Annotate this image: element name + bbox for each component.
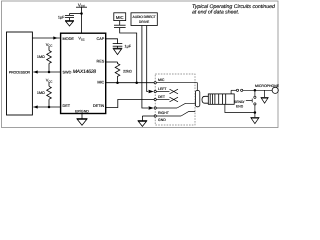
headphone plug body with rings bbox=[208, 94, 234, 104]
wire plug sleeve to button node bbox=[225, 104, 255, 112]
svg-text:DET: DET bbox=[158, 95, 166, 99]
node R2/DET junction bbox=[48, 106, 51, 109]
headphone plug tip bbox=[202, 96, 209, 103]
wire processor to MODE pin bbox=[32, 36, 60, 39]
wire Vcc node to C1 bbox=[70, 13, 82, 15]
wire DETIN pin to jack DET bbox=[106, 100, 154, 108]
wire ADD left output to jack LEFT bbox=[147, 26, 149, 92]
node R1/SWD junction bbox=[48, 71, 51, 74]
svg-text:DET: DET bbox=[63, 104, 71, 108]
svg-text:MIC: MIC bbox=[97, 80, 104, 84]
AUDIO DIRECT DRIVE box bbox=[131, 13, 157, 26]
MIC source box bbox=[114, 13, 126, 21]
wire mic line bbox=[243, 89, 272, 91]
ground for headset return bbox=[250, 113, 259, 124]
microphone element symbol under MIC box bbox=[114, 21, 126, 28]
node R3/MIC junction bbox=[116, 81, 119, 84]
svg-text:MIC: MIC bbox=[116, 15, 124, 20]
svg-text:1μF: 1μF bbox=[58, 16, 65, 20]
svg-text:MAX14628: MAX14628 bbox=[73, 69, 97, 75]
svg-text:EP/GND: EP/GND bbox=[75, 110, 89, 114]
headphone jack connector box (dashed) bbox=[155, 74, 195, 125]
svg-text:SWD: SWD bbox=[63, 71, 72, 75]
resistor R3 22kohm bbox=[115, 62, 132, 83]
Vcc supply symbol bbox=[76, 2, 87, 8]
node mic line junction bbox=[254, 89, 257, 92]
svg-text:MODE: MODE bbox=[63, 37, 75, 41]
svg-text:22kΩ: 22kΩ bbox=[123, 69, 132, 73]
svg-text:DRIVE: DRIVE bbox=[139, 20, 150, 24]
svg-text:PROCESSOR: PROCESSOR bbox=[9, 71, 31, 75]
svg-text:MIC: MIC bbox=[158, 78, 165, 82]
wire SWD pin to processor bbox=[33, 70, 60, 73]
wire ADD right output to jack RIGHT bbox=[142, 26, 148, 109]
SEND/END pushbutton bbox=[234, 91, 256, 112]
microphone capsule bbox=[272, 87, 278, 93]
node mic/MIC row junction bbox=[135, 81, 138, 84]
jack sleeve contact bar bbox=[195, 91, 199, 107]
svg-text:1MΩ: 1MΩ bbox=[37, 55, 45, 59]
jack pin MIC bbox=[154, 78, 197, 90]
processor box U2 PROCESSOR bbox=[7, 32, 33, 115]
resistor R1 1Mohm pullup bbox=[37, 42, 52, 72]
wire MIC element to MIC net bbox=[120, 28, 137, 83]
resistor R2 1Mohm pullup bbox=[37, 78, 52, 107]
capacitor C1 1uF bbox=[58, 14, 74, 21]
op chip U1 MAX14628 bbox=[61, 33, 106, 114]
jack pin LEFT with switch bbox=[154, 87, 178, 94]
svg-text:1MΩ: 1MΩ bbox=[37, 91, 45, 95]
node button/sleeve junction bbox=[254, 111, 257, 114]
arrow into LEFT bbox=[149, 90, 154, 93]
arrow into RIGHT bbox=[149, 106, 154, 109]
svg-text:RIGHT: RIGHT bbox=[158, 111, 170, 115]
svg-text:CAP: CAP bbox=[96, 37, 104, 41]
contact circles on mic line bbox=[231, 89, 236, 91]
svg-text:at end of data sheet.: at end of data sheet. bbox=[192, 9, 239, 15]
wire DET pin to processor bbox=[33, 105, 60, 108]
ground for jack GND row bbox=[138, 116, 154, 126]
svg-text:LEFT: LEFT bbox=[158, 87, 167, 91]
svg-text:VCC: VCC bbox=[78, 37, 84, 42]
border frame bbox=[2, 1, 279, 128]
ground for C2 bbox=[113, 48, 123, 54]
svg-text:RES: RES bbox=[96, 59, 104, 63]
svg-text:AUDIO DIRECT: AUDIO DIRECT bbox=[133, 15, 156, 19]
capacitor C2 1uF bbox=[113, 44, 132, 49]
jack pin DET with switch bbox=[154, 95, 178, 102]
wire RES pin to R3 bbox=[106, 61, 118, 63]
ground for C1 bbox=[65, 21, 74, 26]
jack pin RIGHT with switch bbox=[154, 103, 195, 115]
svg-text:GND: GND bbox=[158, 118, 166, 122]
node Vcc junction bbox=[80, 12, 83, 15]
svg-text:END: END bbox=[236, 104, 244, 108]
wire CAP pin to C2 bbox=[106, 39, 118, 44]
ground EP/GND below chip bbox=[77, 114, 88, 126]
wire Vcc to chip VCC pin bbox=[81, 7, 83, 33]
svg-text:1μF: 1μF bbox=[125, 44, 132, 48]
jack pin GND with switch bbox=[154, 112, 195, 123]
wire MIC pin to jack MIC bbox=[106, 82, 154, 84]
svg-text:DETIN: DETIN bbox=[93, 104, 105, 108]
ground for microphone bbox=[261, 90, 269, 103]
wire plug tip contact to headset mic line bbox=[230, 90, 232, 94]
note text: Typical Operating Circuits continued at end of data sheet bbox=[192, 4, 276, 15]
